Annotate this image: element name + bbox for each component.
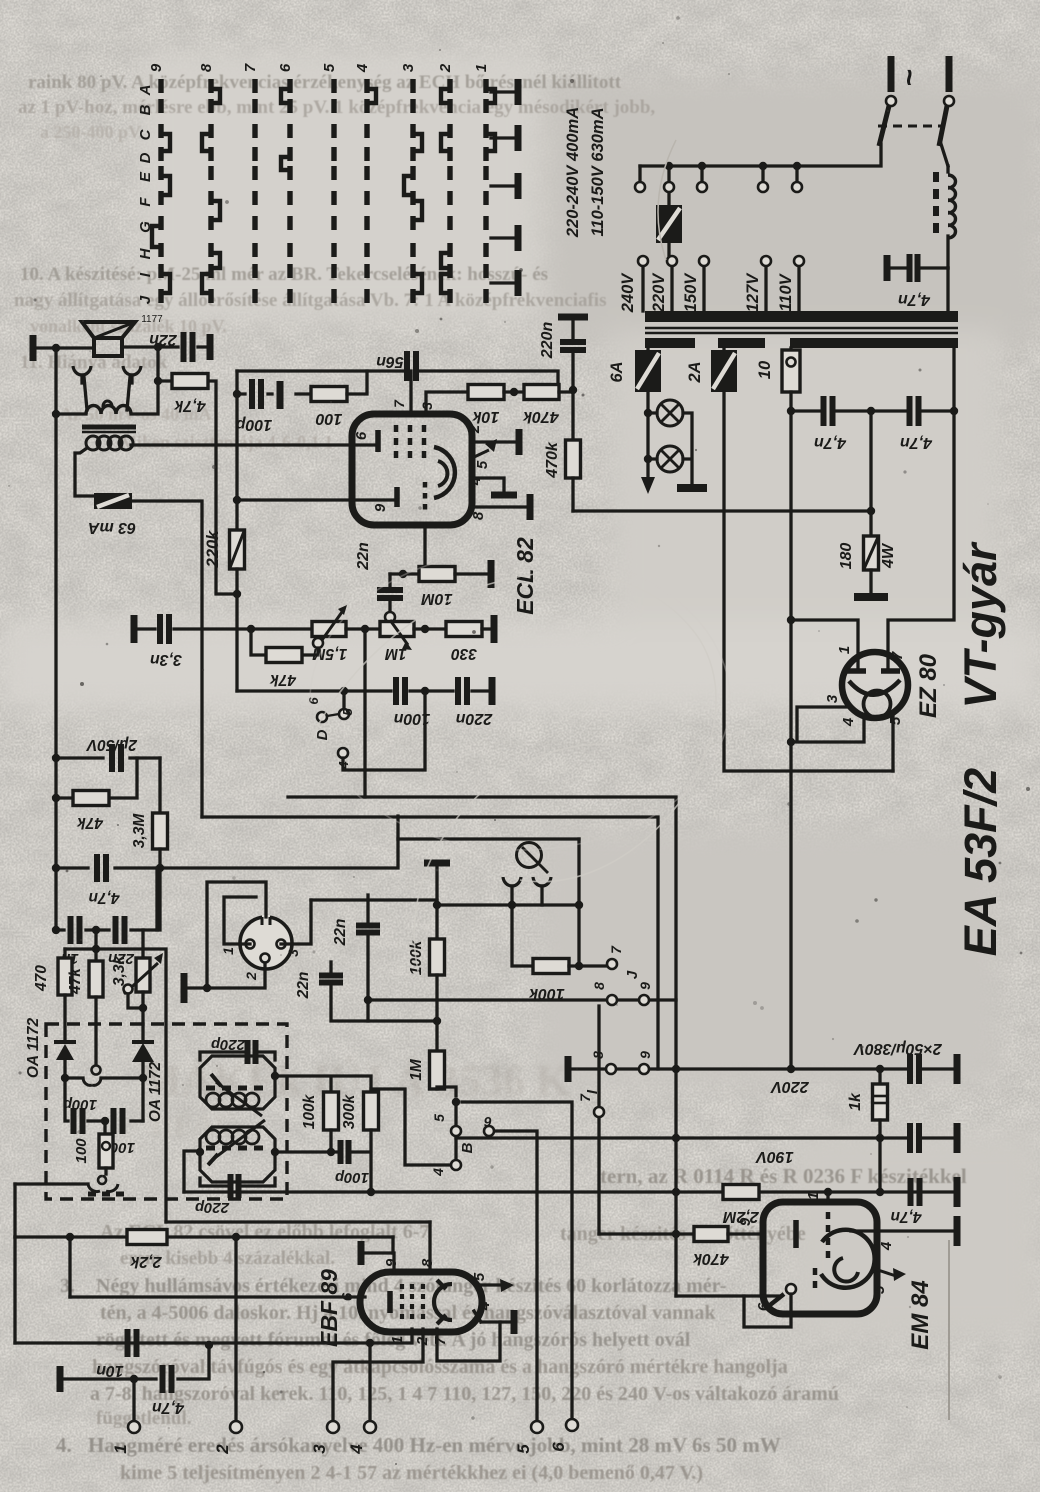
svg-text:EZ 80: EZ 80: [915, 653, 942, 718]
svg-text:4,7k: 4,7k: [173, 397, 206, 414]
svg-text:100: 100: [316, 410, 343, 427]
svg-text:63 mA: 63 mA: [88, 519, 136, 536]
svg-text:9: 9: [372, 503, 389, 512]
svg-text:D: D: [137, 152, 154, 163]
svg-text:5: 5: [431, 1114, 447, 1122]
svg-text:a 250-400 pV.: a 250-400 pV.: [40, 122, 143, 142]
svg-text:Miken szisztemája 4-6-0,1 1: Miken szisztemája 4-6-0,1 1: [120, 432, 333, 452]
svg-text:5: 5: [321, 63, 338, 72]
svg-text:8: 8: [419, 1258, 436, 1267]
svg-text:6: 6: [484, 1114, 492, 1130]
svg-text:4: 4: [347, 1444, 366, 1455]
svg-text:2: 2: [213, 1444, 232, 1455]
svg-text:220p: 220p: [211, 1036, 246, 1053]
svg-text:6: 6: [353, 431, 370, 440]
svg-text:EBF 89: EBF 89: [316, 1269, 342, 1347]
svg-text:300k: 300k: [341, 1093, 358, 1129]
svg-text:470k: 470k: [544, 441, 561, 479]
svg-text:220k: 220k: [204, 530, 222, 569]
svg-text:4,7n: 4,7n: [814, 434, 847, 451]
svg-text:3: 3: [310, 1444, 329, 1454]
svg-text:3: 3: [285, 949, 301, 957]
svg-text:10: 10: [756, 360, 774, 379]
svg-text:4.: 4.: [56, 1433, 72, 1457]
svg-text:1: 1: [111, 1444, 130, 1453]
svg-text:EA 53F/2: EA 53F/2: [955, 768, 1006, 956]
svg-text:a 7-8. hangszoróval kerek. 110: a 7-8. hangszoróval kerek. 110, 125, 1 4…: [90, 1383, 839, 1405]
svg-text:5: 5: [340, 708, 355, 716]
svg-text:A: A: [137, 85, 154, 97]
svg-text:8: 8: [198, 63, 215, 72]
svg-text:47k: 47k: [269, 671, 297, 688]
svg-text:2μ/50V: 2μ/50V: [85, 736, 138, 753]
svg-text:47k: 47k: [67, 967, 84, 995]
svg-text:4: 4: [878, 1241, 895, 1251]
svg-text:7: 7: [577, 1093, 593, 1102]
svg-text:7: 7: [391, 399, 407, 408]
svg-text:4: 4: [840, 717, 857, 727]
svg-text:3,3k: 3,3k: [111, 955, 128, 987]
svg-text:E: E: [137, 171, 154, 182]
svg-text:100k: 100k: [301, 1093, 318, 1129]
svg-text:1: 1: [220, 947, 236, 955]
svg-text:4: 4: [354, 63, 371, 73]
svg-text:1177: 1177: [141, 314, 163, 325]
svg-text:1: 1: [836, 646, 853, 654]
svg-text:3,3M: 3,3M: [131, 813, 148, 849]
svg-text:240V: 240V: [619, 272, 637, 314]
svg-text:VT-gyár: VT-gyár: [955, 541, 1006, 709]
svg-text:6: 6: [549, 1442, 568, 1452]
svg-text:1: 1: [473, 64, 490, 72]
svg-text:4: 4: [430, 1168, 446, 1177]
svg-text:100: 100: [73, 1138, 90, 1164]
svg-text:~: ~: [893, 69, 926, 87]
svg-text:22n: 22n: [355, 542, 372, 571]
svg-text:7: 7: [889, 651, 906, 660]
svg-text:2×50μ/380V: 2×50μ/380V: [853, 1040, 943, 1057]
svg-text:C: C: [137, 128, 154, 140]
svg-text:J: J: [137, 295, 154, 304]
svg-text:10M: 10M: [421, 590, 453, 607]
svg-text:127V: 127V: [744, 272, 762, 313]
svg-text:22n: 22n: [295, 972, 312, 1000]
svg-text:22n: 22n: [332, 919, 349, 947]
svg-text:470: 470: [33, 965, 50, 992]
svg-text:F: F: [137, 197, 154, 207]
svg-text:3,3n: 3,3n: [150, 651, 182, 668]
svg-text:OA 1172: OA 1172: [25, 1017, 42, 1078]
svg-text:220V: 220V: [650, 272, 668, 314]
svg-text:220V: 220V: [770, 1078, 810, 1095]
svg-text:5: 5: [474, 460, 491, 469]
svg-text:9: 9: [637, 1051, 653, 1059]
svg-text:3.: 3.: [60, 1275, 75, 1297]
svg-text:4,7n: 4,7n: [88, 889, 120, 906]
svg-text:10. A készitésé: pM-25 ml mér: 10. A készitésé: pM-25 ml mér az BR. Tek…: [20, 264, 548, 285]
svg-text:7: 7: [608, 945, 624, 954]
svg-text:2: 2: [466, 424, 483, 434]
svg-text:7: 7: [432, 1336, 449, 1345]
svg-text:180: 180: [838, 543, 855, 570]
svg-text:5: 5: [887, 716, 904, 725]
svg-text:4,7n: 4,7n: [900, 434, 933, 451]
svg-text:4W: 4W: [880, 542, 897, 569]
svg-text:56n: 56n: [376, 353, 404, 370]
svg-text:220p: 220p: [195, 1199, 230, 1216]
svg-text:5: 5: [514, 1444, 533, 1454]
svg-text:220n: 220n: [456, 710, 494, 727]
svg-text:1M: 1M: [408, 1058, 425, 1081]
svg-text:220n: 220n: [539, 322, 556, 360]
svg-text:hangszóróval távfúgós és egy á: hangszóróval távfúgós és egy átkapcsolós…: [92, 1356, 788, 1378]
svg-text:B: B: [459, 1142, 476, 1153]
svg-text:22n: 22n: [149, 331, 178, 348]
svg-text:110-150V 630mA: 110-150V 630mA: [589, 107, 607, 236]
svg-text:47k: 47k: [76, 814, 104, 831]
svg-text:raink 80 pV. A középfrekvencia: raink 80 pV. A középfrekvencias érzékeny…: [28, 72, 622, 93]
svg-text:6A: 6A: [608, 361, 626, 382]
svg-text:100p: 100p: [335, 1169, 369, 1186]
svg-text:10k: 10k: [472, 408, 500, 425]
svg-text:4: 4: [476, 1301, 493, 1311]
svg-text:1k: 1k: [847, 1092, 864, 1111]
svg-text:2,2k: 2,2k: [129, 1253, 162, 1270]
svg-text:110V: 110V: [777, 272, 795, 311]
svg-text:kime 5 teljesítményen 2 4-1 57: kime 5 teljesítményen 2 4-1 57 az mérték…: [120, 1462, 703, 1484]
svg-text:3: 3: [824, 694, 841, 703]
svg-text:150V: 150V: [682, 272, 700, 313]
svg-text:9: 9: [383, 1258, 400, 1267]
svg-text:100p: 100p: [63, 1096, 97, 1113]
svg-text:2A: 2A: [686, 361, 704, 383]
svg-text:4: 4: [467, 476, 484, 486]
svg-text:6: 6: [277, 63, 294, 72]
svg-text:2: 2: [437, 63, 454, 73]
svg-text:B: B: [137, 104, 154, 115]
svg-text:9: 9: [148, 63, 165, 72]
svg-text:10n: 10n: [96, 1362, 124, 1379]
svg-text:100p: 100p: [236, 416, 273, 433]
svg-text:Hangméré eredés ársókanyelve 4: Hangméré eredés ársókanyelve 400 Hz-en m…: [88, 1433, 781, 1457]
svg-text:6: 6: [306, 697, 321, 705]
svg-text:7: 7: [242, 63, 259, 72]
svg-text:190V: 190V: [755, 1148, 794, 1165]
svg-text:330: 330: [451, 645, 477, 662]
svg-text:9: 9: [737, 1217, 754, 1226]
svg-text:470k: 470k: [522, 408, 560, 425]
svg-text:8: 8: [591, 982, 607, 990]
svg-text:6: 6: [755, 1302, 772, 1311]
svg-text:4,7n: 4,7n: [898, 291, 931, 308]
svg-text:9: 9: [637, 982, 653, 990]
svg-text:H: H: [137, 247, 154, 259]
svg-text:4,7n: 4,7n: [152, 1399, 185, 1416]
svg-text:220-240V 400mA: 220-240V 400mA: [564, 107, 582, 238]
svg-text:1M: 1M: [384, 645, 407, 662]
svg-text:5: 5: [471, 1272, 488, 1281]
svg-text:OA 1172: OA 1172: [147, 1061, 164, 1122]
svg-text:5: 5: [871, 1285, 888, 1294]
svg-text:8: 8: [470, 511, 487, 520]
svg-text:1: 1: [805, 1192, 822, 1200]
svg-text:4,7n: 4,7n: [890, 1208, 922, 1225]
svg-text:J: J: [624, 970, 641, 979]
svg-text:3: 3: [400, 63, 417, 72]
svg-text:2: 2: [243, 972, 259, 981]
svg-text:470k: 470k: [692, 1250, 730, 1267]
svg-text:tén, a 4-5006 daloskor. Hj a 1: tén, a 4-5006 daloskor. Hj a 10. nyomáss…: [100, 1302, 716, 1324]
svg-text:EM 84: EM 84: [907, 1280, 934, 1349]
